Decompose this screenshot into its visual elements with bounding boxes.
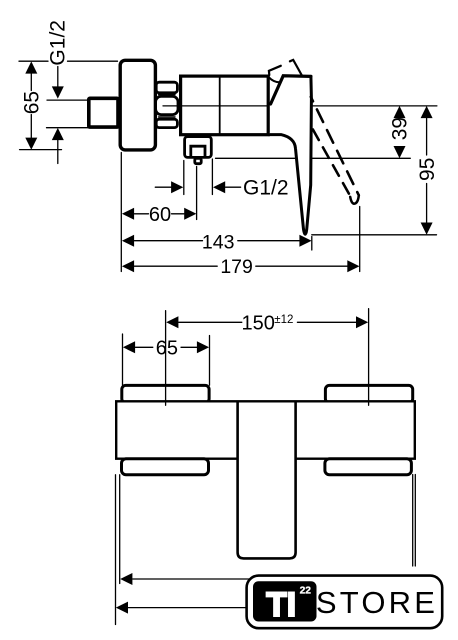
svg-text:±12: ±12: [274, 314, 293, 326]
svg-text:95: 95: [416, 158, 439, 181]
svg-text:G1/2: G1/2: [47, 20, 70, 66]
svg-text:150: 150: [242, 313, 275, 335]
svg-text:60: 60: [149, 204, 171, 226]
svg-text:65: 65: [20, 91, 43, 114]
svg-text:65: 65: [156, 338, 178, 360]
svg-text:143: 143: [202, 231, 235, 253]
svg-text:22: 22: [300, 586, 312, 597]
svg-text:G1/2: G1/2: [243, 176, 289, 199]
svg-text:179: 179: [220, 256, 253, 278]
svg-text:TI: TI: [266, 586, 296, 624]
svg-text:39: 39: [389, 117, 412, 140]
svg-text:STORE: STORE: [316, 585, 438, 620]
